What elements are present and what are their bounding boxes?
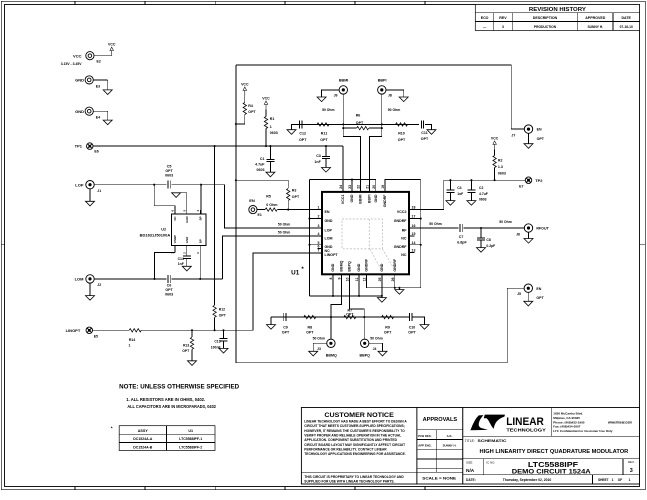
svg-text:REVISION HISTORY: REVISION HISTORY (529, 7, 587, 13)
svg-text:C2: C2 (479, 186, 483, 190)
capacitor C14 1nF (183, 255, 191, 257)
svg-text:OF: OF (618, 478, 622, 482)
svg-text:VCC: VCC (73, 53, 82, 58)
svg-text:OPT: OPT (421, 137, 429, 141)
svg-text:SUNNY H.: SUNNY H. (587, 25, 603, 29)
svg-text:TECHNOLOGY APPLICATIONS ENGINE: TECHNOLOGY APPLICATIONS ENGINEERING FOR … (304, 452, 406, 456)
svg-text:C8: C8 (486, 238, 490, 242)
svg-text:LINEAR: LINEAR (506, 416, 544, 428)
test point TP1 / E6 (87, 143, 94, 150)
resistor R4 (EN pull-up, OPT) (244, 96, 246, 103)
wire C6 to U1 LOM pin 4 (172, 278, 223, 280)
svg-text:PERFORMANCE OR RELIABILITY.: PERFORMANCE OR RELIABILITY. CONTACT LINE… (304, 447, 387, 451)
svg-text:50 Ohm: 50 Ohm (322, 108, 334, 112)
svg-text:BBPI: BBPI (368, 195, 372, 204)
svg-text:18: 18 (412, 206, 416, 210)
wire pin17 (409, 218, 421, 220)
svg-text:0603: 0603 (270, 131, 278, 135)
capacitor C1 4.7uF (269, 146, 271, 159)
turret E2 VCC (94, 55, 112, 57)
wire U2 pin4 riser (200, 185, 202, 214)
resistor R9 OPT (382, 315, 394, 318)
resistor R12 OPT (214, 146, 216, 305)
balun U2 BD1631J50100A (172, 214, 207, 245)
svg-text:DEMO CIRCUIT 1524A: DEMO CIRCUIT 1524A (512, 470, 592, 476)
svg-text:OPT: OPT (165, 169, 173, 173)
svg-text:CUSTOMER NOTICE: CUSTOMER NOTICE (324, 412, 394, 419)
svg-text:DC1524A-B: DC1524A-B (133, 446, 153, 450)
svg-text:R2: R2 (498, 159, 503, 163)
svg-text:E5: E5 (94, 335, 98, 339)
svg-text:1: 1 (129, 344, 131, 348)
wire GND bottom bus (310, 295, 382, 297)
svg-text:0603: 0603 (498, 171, 506, 175)
wire C7 to J6 (464, 227, 525, 229)
svg-text:OPT: OPT (346, 313, 354, 317)
ground (C4) (446, 201, 455, 206)
ground (J3) (313, 343, 327, 351)
ground (E4) (103, 120, 112, 125)
svg-text:SUPPLIED FOR USE WITH LINEAR T: SUPPLIED FOR USE WITH LINEAR TECHNOLOGY … (304, 479, 394, 483)
svg-text:VCC: VCC (491, 137, 499, 141)
svg-text:3: 3 (318, 224, 320, 228)
wire C5 to U1 LOP pin 3 (172, 184, 225, 186)
svg-text:6.8pF: 6.8pF (457, 241, 467, 245)
svg-text:OPT: OPT (292, 195, 300, 199)
turret E1 EN (249, 206, 257, 214)
exposed pad (dashed) (342, 219, 382, 249)
title block (463, 408, 640, 485)
revision history table (475, 5, 639, 31)
svg-text:BBPI: BBPI (378, 79, 387, 83)
node LINOPT/R13 (191, 329, 193, 331)
svg-text:0603: 0603 (257, 168, 265, 172)
ground (J1) (89, 189, 91, 201)
wire LINOPT (92, 329, 129, 331)
wire VCC1 riser to pin 24 (342, 146, 344, 192)
ground (C12) (292, 124, 294, 129)
svg-text:07-16-10: 07-16-10 (620, 25, 633, 29)
resistor R11 OPT (317, 123, 329, 126)
svg-text:NC: NC (401, 236, 407, 240)
svg-text:17: 17 (412, 215, 416, 219)
svg-text:J3: J3 (317, 347, 321, 351)
node VCC/C3 (325, 145, 327, 147)
svg-text:R12: R12 (219, 307, 225, 311)
svg-text:GNDRF: GNDRF (394, 245, 408, 249)
svg-text:8: 8 (329, 277, 333, 279)
node EN/R3 (235, 179, 237, 181)
svg-text:GND: GND (331, 263, 335, 271)
svg-text:GND: GND (185, 216, 189, 222)
wire BBPI drop (381, 94, 383, 128)
svg-text:R6: R6 (356, 113, 361, 117)
wire U2 pin3 riser (199, 252, 201, 279)
svg-text:LTC5588IPF-2: LTC5588IPF-2 (179, 446, 202, 450)
svg-text:1nF: 1nF (314, 160, 321, 164)
capacitor C5 OPT 0603 (167, 181, 169, 189)
svg-text:OPT: OPT (537, 137, 545, 141)
svg-text:OPT: OPT (165, 288, 173, 292)
svg-text:C12: C12 (299, 132, 306, 136)
svg-text:BBMQ: BBMQ (326, 354, 337, 358)
svg-text:U1: U1 (291, 269, 300, 276)
node LOM/U2 pin1 (153, 278, 155, 280)
connector J3 BBMQ (330, 317, 332, 339)
svg-text:VERIFY PROPER AND RELIABLE OPE: VERIFY PROPER AND RELIABLE OPERATION IN … (304, 433, 401, 437)
wire U2 pin1 to LOM (155, 252, 175, 279)
svg-text:20: 20 (372, 185, 376, 189)
svg-text:Fax: (408)434-0507: Fax: (408)434-0507 (553, 425, 580, 429)
svg-text:J5: J5 (517, 292, 521, 296)
connector J6 RFOUT (524, 224, 532, 232)
node LINOPT/R12 (214, 329, 216, 331)
svg-text:14: 14 (412, 241, 416, 245)
svg-text:GNDRF: GNDRF (393, 258, 397, 272)
svg-text:R3: R3 (292, 188, 297, 192)
svg-text:CIRCUIT BOARD LAYOUT MAY SIGNI: CIRCUIT BOARD LAYOUT MAY SIGNIFICANTLY A… (304, 443, 405, 447)
svg-text:1nF: 1nF (457, 192, 463, 196)
svg-text:BBMI: BBMI (339, 79, 348, 83)
svg-text:LINOPT: LINOPT (66, 328, 81, 333)
svg-text:SCHEMATIC: SCHEMATIC (478, 439, 508, 443)
svg-text:22: 22 (357, 185, 361, 189)
svg-text:1: 1 (629, 478, 631, 482)
svg-text:EN: EN (325, 210, 330, 214)
svg-text:J1: J1 (97, 189, 101, 193)
svg-text:GND: GND (350, 194, 354, 202)
ground (GNDRF) (398, 288, 400, 290)
svg-text:7: 7 (318, 249, 320, 253)
svg-text:C10: C10 (409, 326, 416, 330)
svg-text:C7: C7 (459, 235, 464, 239)
ground (J9) (322, 90, 340, 97)
svg-text:APPROVALS: APPROVALS (423, 417, 458, 423)
svg-text:SIZE: SIZE (466, 460, 472, 464)
svg-text:VCC: VCC (241, 83, 249, 87)
svg-text:R9: R9 (385, 326, 390, 330)
svg-text:PCB DES.: PCB DES. (418, 434, 431, 438)
svg-text:BP: BP (199, 239, 203, 243)
svg-text:OPT: OPT (356, 121, 364, 125)
svg-text:DC1524A-A: DC1524A-A (133, 437, 153, 441)
svg-text:R4: R4 (248, 104, 253, 108)
svg-text:J2: J2 (97, 283, 101, 287)
svg-text:15: 15 (412, 232, 416, 236)
svg-text:LTC Confidential-For Customer: LTC Confidential-For Customer Use Only (553, 429, 612, 433)
svg-text:NC: NC (401, 253, 407, 257)
svg-text:9: 9 (338, 277, 342, 279)
svg-text:APPLICATION. COMPONENT SUBSTI: APPLICATION. COMPONENT SUBSTITUTION AND … (304, 438, 397, 442)
svg-text:LOM: LOM (325, 236, 333, 240)
capacitor C10 OPT (409, 313, 411, 321)
svg-text:U2: U2 (161, 228, 166, 232)
svg-text:C3: C3 (316, 154, 321, 158)
svg-text:C13: C13 (214, 339, 220, 343)
svg-text:OPT: OPT (398, 138, 406, 142)
IC U1 LTC5588 (322, 192, 409, 274)
svg-text:APPROVED: APPROVED (585, 16, 606, 20)
svg-text:SUNNY H.: SUNNY H. (443, 444, 457, 448)
svg-text:TP2: TP2 (535, 178, 543, 183)
svg-text:50 Ohm: 50 Ohm (499, 220, 511, 224)
svg-text:C11: C11 (421, 131, 427, 135)
wire BBMI to pin 22 (343, 128, 360, 192)
VCC symbol (E2) (111, 51, 113, 56)
wire GND spine (309, 180, 311, 296)
ground (J4) (369, 343, 383, 351)
node C6/U2 pin3 (199, 278, 201, 280)
svg-text:*: * (111, 426, 113, 431)
svg-text:0.2pF: 0.2pF (486, 244, 495, 248)
resistor R3 OPT (236, 180, 288, 188)
svg-text:LOP: LOP (325, 228, 333, 232)
wire VCC rail (93, 145, 344, 147)
svg-text:24: 24 (339, 185, 343, 189)
svg-text:A.K.: A.K. (447, 434, 453, 438)
svg-text:APP ENG.: APP ENG. (418, 444, 432, 448)
svg-text:VCC: VCC (262, 97, 270, 101)
svg-text:GND: GND (374, 194, 378, 202)
node C5/U2 pin4 (200, 184, 202, 186)
svg-text:VCC1: VCC1 (341, 195, 345, 205)
wire VCC2 pin18 (409, 180, 526, 209)
connector J9 BBMI (339, 86, 347, 94)
connector J1 LOP (86, 181, 94, 189)
test point TP2 / E7 (525, 177, 532, 184)
test point E5 LINOPT (86, 327, 93, 334)
wire pin2 GND (310, 218, 323, 220)
node VCC/R12 (214, 145, 216, 147)
svg-text:BBPQ: BBPQ (348, 261, 352, 272)
svg-text:EN: EN (249, 198, 255, 203)
svg-text:Milpitas, CA 95035: Milpitas, CA 95035 (553, 416, 580, 420)
svg-text:OPT: OPT (408, 330, 416, 334)
svg-text:E1: E1 (258, 213, 262, 217)
wire U2 pin6 to LOP (154, 185, 175, 206)
svg-text:C14: C14 (178, 257, 184, 261)
svg-text:BP: BP (199, 216, 203, 220)
capacitor C2 4.7uF (470, 180, 472, 190)
svg-text:C9: C9 (283, 326, 288, 330)
svg-text:R5: R5 (266, 194, 271, 198)
svg-text:4: 4 (318, 232, 320, 236)
resistor R7 OPT (344, 315, 356, 318)
approvals box (417, 408, 463, 485)
wire EN bus vertical (235, 65, 237, 363)
svg-text:OPT: OPT (306, 330, 314, 334)
svg-text:REV.: REV. (628, 460, 635, 464)
svg-text:C1: C1 (260, 157, 265, 161)
wire EN top run (236, 65, 524, 129)
svg-text:PRODUCTION: PRODUCTION (534, 25, 557, 29)
resistor R2 1.3 (494, 150, 496, 156)
resistor R14 1 (129, 329, 141, 332)
wire BBPQ from pin 10 (350, 274, 365, 317)
svg-text:J4: J4 (373, 347, 377, 351)
svg-text:50 Ohm: 50 Ohm (278, 230, 290, 234)
svg-text:GNDRF: GNDRF (365, 258, 369, 272)
svg-text:GND: GND (75, 109, 84, 114)
svg-text:GNDRF: GNDRF (383, 194, 387, 208)
svg-text:VCC: VCC (108, 43, 116, 47)
ground (C2) (467, 201, 476, 206)
ground (C9) (270, 317, 272, 325)
svg-text:GND: GND (75, 78, 84, 83)
node LINOPT/C13 (222, 329, 224, 331)
ground (R13) (188, 361, 197, 366)
svg-text:HIGH LINEARITY DIRECT QUADRATU: HIGH LINEARITY DIRECT QUADRATURE MODULAT… (480, 449, 629, 455)
svg-text:RFOUT: RFOUT (536, 227, 549, 231)
svg-text:12: 12 (363, 277, 367, 281)
svg-text:3.15V - 3.45V: 3.15V - 3.45V (61, 62, 82, 66)
svg-text:GNDRF: GNDRF (394, 219, 408, 223)
resistor R5 0 Ohm (257, 209, 265, 211)
svg-text:OPT: OPT (219, 313, 227, 317)
svg-text:4.7uF: 4.7uF (479, 192, 488, 196)
svg-text:N/A: N/A (466, 468, 475, 474)
node VCC/C1 (269, 145, 271, 147)
wire BB Q horizontal (271, 316, 409, 318)
svg-text:THIS CIRCUIT IS PROPRIETARY TO: THIS CIRCUIT IS PROPRIETARY TO LINEAR TE… (304, 475, 404, 479)
wire GNDRF pins 12/26 (367, 274, 421, 288)
svg-text:2: 2 (318, 215, 320, 219)
svg-text:C6: C6 (167, 283, 172, 287)
connector J2 LOM (86, 275, 94, 283)
svg-text:E4: E4 (96, 116, 100, 120)
wire pin19 (385, 180, 421, 192)
svg-text:REV: REV (499, 16, 507, 20)
VCC symbol (R1) (265, 104, 267, 109)
svg-text:E6: E6 (94, 149, 98, 153)
wire BBPI to pin 21 (370, 128, 382, 192)
svg-text:21: 21 (366, 185, 370, 189)
svg-text:0603: 0603 (165, 174, 173, 178)
svg-text:LOP: LOP (75, 182, 84, 187)
svg-text:E3: E3 (96, 84, 100, 88)
svg-text:Thursday, September 02, 2010: Thursday, September 02, 2010 (503, 478, 552, 482)
VCC symbol (R4) (244, 90, 246, 95)
svg-text:RF: RF (402, 228, 408, 232)
ground (C1) (266, 172, 275, 177)
capacitor C6 OPT 0603 (167, 275, 169, 283)
svg-text:LINOPT: LINOPT (325, 253, 339, 257)
svg-text:1nF: 1nF (178, 262, 184, 266)
svg-text:0603: 0603 (165, 293, 173, 297)
svg-text:CIRCUIT THAT MEETS CUSTOMER-SU: CIRCUIT THAT MEETS CUSTOMER-SUPPLIED SPE… (304, 424, 404, 428)
svg-text:VCC2: VCC2 (397, 210, 407, 214)
svg-text:1: 1 (612, 478, 614, 482)
wire BBMQ from pin 9 (331, 274, 342, 317)
svg-text:ALL CAPACITORS ARE IN MICROFAR: ALL CAPACITORS ARE IN MICROFARADS, 0402 (127, 404, 216, 409)
svg-text:BD1631J50100A: BD1631J50100A (140, 233, 171, 237)
svg-text:GND: GND (325, 219, 333, 223)
svg-text:R1: R1 (270, 117, 275, 121)
svg-text:EN: EN (537, 128, 542, 132)
svg-text:10: 10 (346, 277, 350, 281)
capacitor C8 0.2pF (480, 228, 482, 238)
svg-text:50 Ohm: 50 Ohm (370, 337, 382, 341)
svg-text:GND: GND (380, 263, 384, 271)
svg-text:R14: R14 (129, 338, 136, 342)
connector J7 EN OPT (524, 125, 532, 133)
capacitor C11 OPT (420, 120, 422, 128)
svg-text:R11: R11 (321, 132, 327, 136)
ground (J5) (527, 292, 529, 301)
svg-text:ECO: ECO (481, 16, 489, 20)
svg-text:J8: J8 (388, 94, 392, 98)
svg-text:GND: GND (185, 237, 189, 243)
svg-text:BBMQ: BBMQ (340, 260, 344, 271)
connector J5 EN OPT (524, 284, 532, 292)
svg-text:UNBP: UNBP (173, 235, 177, 243)
resistor R6 OPT (343, 127, 356, 129)
node VCC/R1 (265, 145, 267, 147)
svg-text:J9: J9 (334, 94, 338, 98)
ground (J7) (528, 133, 530, 143)
svg-text:OPT: OPT (320, 138, 328, 142)
ground (C11) (425, 124, 432, 129)
node LOP/U2 (153, 184, 155, 186)
svg-text:E7: E7 (519, 184, 523, 188)
svg-text:SHEET: SHEET (598, 478, 609, 482)
svg-text:SCALE = NONE: SCALE = NONE (422, 477, 456, 481)
wire EN bottom run (236, 288, 524, 363)
svg-text:E2: E2 (97, 59, 101, 63)
svg-text:1.3: 1.3 (498, 165, 503, 169)
svg-text:OPT: OPT (182, 349, 190, 353)
ground (J8) (386, 90, 404, 97)
svg-text:LINEAR TECHNOLOGY HAS MADE A B: LINEAR TECHNOLOGY HAS MADE A BEST EFFORT… (304, 420, 407, 424)
wire pin14 (409, 244, 421, 246)
ground (C3) (322, 168, 331, 173)
svg-text:LTC5588IPF-1: LTC5588IPF-1 (179, 437, 202, 441)
svg-text:3: 3 (502, 25, 504, 29)
svg-text:NOTE: UNLESS OTHERWISE SPECIFI: NOTE: UNLESS OTHERWISE SPECIFIED (119, 384, 239, 391)
Linear Technology logo (470, 415, 488, 430)
VCC symbol (R2) (494, 144, 496, 149)
svg-text:4.7uF: 4.7uF (255, 162, 265, 166)
svg-text:EN: EN (536, 287, 541, 291)
svg-text:HOWEVER, IT REMAINS THE CUSTOM: HOWEVER, IT REMAINS THE CUSTOMER'S RESPO… (304, 429, 405, 433)
wire RF pin16 (409, 227, 459, 229)
wire BB I horizontal (294, 123, 419, 125)
ground (C8) (477, 248, 486, 253)
wire pin5 GND (310, 244, 323, 246)
wire LINOPT to pin 7 (253, 253, 322, 330)
connector J8 BBPI (378, 86, 386, 94)
svg-text:50 Ohm: 50 Ohm (388, 108, 400, 112)
svg-text:R10: R10 (398, 132, 405, 136)
wire pin25 (381, 274, 383, 296)
svg-text:0603: 0603 (479, 198, 487, 202)
ground (bottom bus) (381, 296, 383, 298)
svg-text:16: 16 (412, 224, 416, 228)
svg-text:J6: J6 (516, 233, 520, 237)
wire pin8 (332, 274, 334, 296)
svg-text:IC NO.: IC NO. (486, 460, 495, 464)
svg-text:50 Ohm: 50 Ohm (429, 222, 441, 226)
svg-text:DESCRIPTION: DESCRIPTION (533, 16, 558, 20)
svg-text:C5: C5 (167, 164, 172, 168)
turret E4 GND (93, 110, 107, 112)
svg-text:OPT: OPT (384, 330, 392, 334)
svg-text:50 Ohm: 50 Ohm (313, 337, 325, 341)
svg-text:11: 11 (355, 277, 359, 281)
svg-text:OPT: OPT (282, 330, 290, 334)
svg-text:OPT: OPT (299, 138, 307, 142)
svg-text:1. ALL RESISTORS ARE IN OHMS,: 1. ALL RESISTORS ARE IN OHMS, 0402. (126, 397, 205, 402)
